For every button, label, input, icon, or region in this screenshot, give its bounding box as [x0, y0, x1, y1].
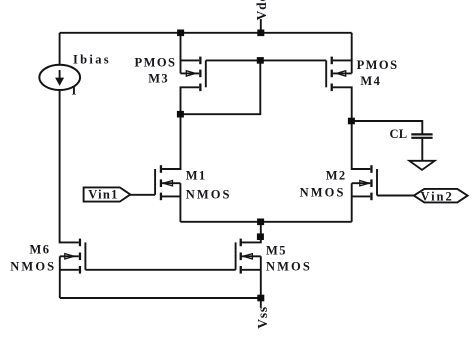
transistor M4 source stub	[333, 59, 352, 61]
transistor M2 bulk arrow	[360, 181, 369, 186]
port Vin1 flag	[84, 187, 131, 201]
transistor M5 source stub	[242, 269, 261, 271]
wire top Vdd rail	[60, 32, 352, 34]
transistor M4 gate line	[325, 60, 327, 87]
svg-text:NMOS: NMOS	[266, 259, 312, 273]
transistor M1 source stub	[162, 195, 180, 197]
svg-text:CL: CL	[390, 127, 408, 141]
svg-text:M4: M4	[360, 74, 381, 88]
Vss supply tick	[260, 298, 262, 308]
svg-text:PMOS: PMOS	[135, 55, 177, 69]
svg-text:PMOS: PMOS	[357, 58, 399, 72]
svg-text:NMOS: NMOS	[186, 187, 232, 201]
transistor M3 bulk arrow	[186, 71, 195, 76]
current source Ibias	[39, 65, 80, 90]
wire Vin2 lead	[377, 195, 414, 197]
transistor M1 bulk arrow	[163, 181, 172, 186]
transistor M6 (NMOS) gate line	[84, 242, 86, 269]
transistor M3 channel bars	[199, 57, 201, 65]
transistor M2 bulk lead	[352, 182, 371, 184]
junction node M4 drain / CL	[348, 118, 355, 125]
wire tail bus	[180, 221, 351, 223]
transistor M3 source stub	[181, 59, 200, 61]
transistor M2 source stub	[352, 195, 371, 197]
svg-text:Vin1: Vin1	[88, 188, 118, 202]
svg-text:M2: M2	[326, 168, 347, 182]
wire M5 bulk/source down to Vss rail	[260, 256, 262, 298]
transistor M3 (PMOS) source wire from rail	[180, 33, 182, 74]
junction node Vss rail / M5 source	[257, 295, 264, 302]
svg-text:Vdd: Vdd	[254, 0, 269, 20]
wire M3 drain down to M1 drain	[162, 87, 199, 169]
svg-text:Vss: Vss	[255, 306, 270, 329]
transistor M4 (PMOS) source wire from rail	[351, 33, 353, 74]
transistor M6 bulk arrow	[65, 254, 74, 259]
wire tail to M5 drain	[240, 222, 261, 243]
transistor M4 channel bars	[331, 57, 333, 65]
junction node mirror gates	[257, 57, 264, 64]
transistor M5 channel bars	[240, 239, 242, 247]
svg-text:M6: M6	[30, 242, 51, 256]
svg-text:NMOS: NMOS	[300, 186, 346, 200]
junction node below tail	[257, 233, 264, 240]
junction node M3 drain / diode connection	[177, 111, 184, 118]
svg-text:M5: M5	[266, 243, 287, 257]
transistor M3 gate line	[205, 60, 207, 87]
wire M4 drain to CL	[352, 121, 423, 134]
svg-text:M3: M3	[148, 72, 169, 86]
ground	[409, 161, 434, 170]
transistor M6 channel bars	[79, 239, 81, 247]
wire gate bus M6 to M5	[85, 269, 235, 271]
transistor M5 bulk lead	[242, 255, 261, 257]
transistor M4 bulk arrow	[337, 71, 346, 76]
junction node rail/Vdd	[257, 30, 264, 37]
transistor M2 channel bars	[370, 165, 372, 173]
wire current source to M6 drain	[60, 90, 79, 243]
wire gate bus M3 to M4	[206, 59, 326, 61]
transistor M1 bulk lead	[162, 182, 180, 184]
wire rail to current source top	[59, 33, 61, 65]
wire M1 bulk/source to tail	[179, 183, 181, 222]
transistor M1 channel bars	[160, 165, 162, 173]
transistor M4 bulk lead	[333, 72, 352, 74]
wire M2 bulk/source to tail	[351, 183, 353, 222]
transistor M6 bulk lead	[60, 255, 79, 257]
transistor M1 (NMOS) gate line	[154, 169, 156, 195]
svg-text:I: I	[72, 83, 77, 97]
wire M6 bulk/source down to Vss rail	[59, 256, 61, 298]
svg-text:Ibias: Ibias	[73, 53, 111, 67]
transistor M5 bulk arrow	[243, 254, 252, 259]
capacitor CL	[411, 133, 432, 135]
svg-text:NMOS: NMOS	[10, 259, 56, 273]
junction node rail/M3 source	[177, 30, 184, 37]
transistor M2 (NMOS) gate line	[376, 169, 378, 196]
junction node tail / M5 drain	[257, 219, 264, 226]
wire bottom Vss rail	[60, 297, 261, 299]
wire M4 drain down to M2 drain	[333, 87, 371, 169]
port Vin2 flag	[414, 189, 468, 203]
transistor M5 (NMOS) gate line	[235, 242, 237, 269]
wire Vin1 lead	[130, 194, 155, 196]
wire mirror gate to M3 drain (diode connection)	[180, 60, 260, 114]
transistor M6 source stub	[60, 269, 79, 271]
Vdd supply tick	[260, 19, 262, 33]
transistor M3 bulk lead	[181, 72, 200, 74]
svg-text:M1: M1	[186, 169, 207, 183]
svg-text:Vin2: Vin2	[421, 190, 454, 204]
